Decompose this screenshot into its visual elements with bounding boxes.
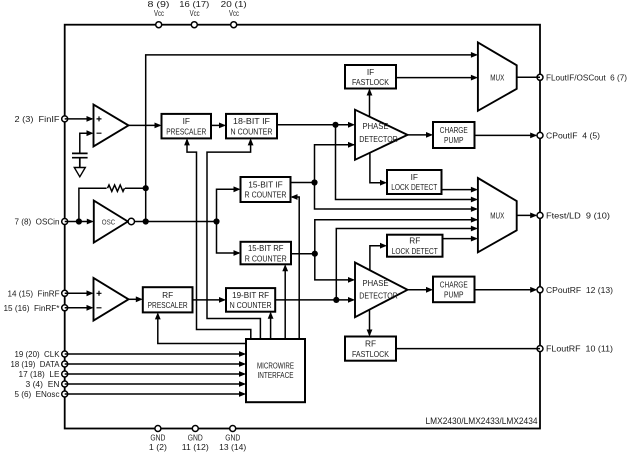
junction RF fp branch — [333, 297, 339, 303]
wire feedback right segment — [125, 187, 146, 189]
wire IF lock detect to MUX — [442, 189, 477, 191]
pin OSCin — [62, 219, 68, 225]
svg-text:7 (8) OSCin: 7 (8) OSCin — [15, 217, 60, 227]
pin Vcc 8 (9) — [156, 22, 162, 28]
svg-text:FLoutRF 10 (11): FLoutRF 10 (11) — [546, 344, 613, 354]
wire OSC to IF R counter input — [217, 189, 240, 221]
wire IF fr to phase detector arrow — [348, 142, 355, 148]
capacitor on IF amp - input — [72, 153, 88, 167]
wire IF phase detector to charge pump — [408, 134, 432, 136]
svg-text:PHASE: PHASE — [363, 278, 389, 288]
OSC buffer — [94, 201, 128, 243]
svg-text:MUX: MUX — [490, 210, 504, 220]
pin CPoutRF — [537, 287, 543, 293]
svg-text:CPoutIF 4 (5): CPoutIF 4 (5) — [546, 130, 600, 140]
resistor OSC feedback — [108, 185, 125, 191]
wire OSCin to OSC buffer — [65, 221, 93, 223]
wire IF phase detector to lock detect — [370, 153, 386, 183]
svg-text:LOCK DETECT: LOCK DETECT — [391, 182, 437, 192]
junction OSC output to routing line — [143, 218, 149, 224]
svg-text:15-BIT IF: 15-BIT IF — [248, 180, 283, 190]
svg-text:FLoutIF/OSCout 6 (7): FLoutIF/OSCout 6 (7) — [546, 72, 627, 82]
wire FinRF* to amp - input — [65, 307, 92, 309]
svg-text:13 (14): 13 (14) — [219, 442, 246, 452]
block 19-BIT RF N COUNTER — [226, 288, 275, 312]
block IF PRESCALER — [162, 114, 212, 138]
svg-text:Vcc: Vcc — [154, 9, 164, 18]
svg-text:MUX: MUX — [490, 72, 504, 82]
junction OSC output to R counters — [213, 218, 219, 224]
wire OSC to RF R counter input — [217, 222, 240, 254]
pin FLoutIF/OSCout — [537, 74, 543, 80]
RF input buffer amplifier — [94, 278, 129, 321]
wire IF N counter to IF phase detector — [277, 124, 354, 126]
svg-text:PUMP: PUMP — [444, 135, 464, 145]
junction feedback to OSC routing — [143, 185, 149, 191]
wire RF N counter to RF phase detector — [275, 299, 353, 301]
block 15-BIT IF R COUNTER — [241, 177, 291, 202]
svg-text:CHARGE: CHARGE — [440, 125, 468, 135]
wire RF fr to MUX arrow — [471, 217, 478, 223]
block RF CHARGE PUMP — [433, 277, 475, 303]
wire FinIF to amp + input — [65, 118, 92, 120]
pin FLoutRF — [537, 346, 543, 352]
wire RF phase detector to RF fastlock — [369, 310, 371, 335]
pin GND 1 (2) — [155, 426, 161, 432]
block 18-BIT IF N COUNTER — [226, 114, 277, 138]
wire IF prescaler to IF N counter — [211, 124, 225, 126]
block MICROWIRE INTERFACE — [246, 339, 305, 402]
svg-text:11 (12): 11 (12) — [182, 442, 209, 452]
wire OSC output — [135, 221, 217, 223]
wire amp - input — [80, 133, 92, 153]
svg-text:1 (2): 1 (2) — [149, 442, 167, 452]
wire CPoutRF — [475, 289, 536, 291]
wire RF lock detect to MUX — [443, 238, 477, 240]
svg-text:3 (4) EN: 3 (4) EN — [26, 379, 60, 389]
svg-text:18 (19) DATA: 18 (19) DATA — [11, 359, 60, 369]
pin FinRF — [62, 290, 68, 296]
block 15-BIT RF R COUNTER — [241, 242, 292, 264]
pin GND 13 (14) — [230, 426, 236, 432]
wire IF amp output to IF prescaler — [129, 124, 161, 126]
svg-text:15-BIT RF: 15-BIT RF — [248, 243, 284, 253]
svg-text:CPoutRF 12 (13): CPoutRF 12 (13) — [546, 285, 613, 295]
svg-text:20 (1): 20 (1) — [221, 0, 247, 9]
svg-text:15 (16) FinRF*: 15 (16) FinRF* — [4, 303, 61, 313]
svg-text:RF: RF — [409, 236, 420, 246]
wire top MUX output FLoutIF/OSCout — [517, 76, 540, 78]
svg-text:LOCK DETECT: LOCK DETECT — [392, 246, 438, 256]
pin CLK — [62, 351, 68, 357]
mux U2 Ftest/LD MUX — [478, 178, 517, 252]
svg-text:19 (20) CLK: 19 (20) CLK — [15, 349, 60, 359]
svg-text:RF: RF — [162, 290, 173, 300]
wire OSC to top MUX input — [146, 55, 477, 222]
wire RF fp to MUX — [336, 229, 476, 300]
svg-text:MICROWIRE: MICROWIRE — [257, 361, 294, 371]
wire microwire to RF R counter — [284, 266, 286, 339]
svg-text:IF: IF — [411, 172, 418, 182]
wire microwire to IF prescaler — [187, 140, 251, 339]
mux U1 top MUX — [478, 42, 517, 110]
svg-text:INTERFACE: INTERFACE — [258, 370, 294, 380]
svg-text:N COUNTER: N COUNTER — [230, 300, 272, 310]
junction OSCin feedback — [76, 218, 82, 224]
chip boundary — [65, 25, 540, 429]
svg-text:R COUNTER: R COUNTER — [245, 253, 287, 263]
pin LE — [62, 371, 68, 377]
svg-text:OSC: OSC — [102, 217, 116, 226]
svg-text:18-BIT IF: 18-BIT IF — [233, 116, 270, 126]
svg-text:LMX2430/LMX2433/LMX2434: LMX2430/LMX2433/LMX2434 — [426, 416, 538, 427]
svg-text:Vcc: Vcc — [229, 9, 239, 18]
ground symbol — [74, 168, 85, 177]
wire IF R counter output — [291, 182, 315, 184]
wire CPoutIF — [475, 134, 536, 136]
svg-text:IF: IF — [367, 67, 374, 77]
wire IF fastlock to top MUX — [396, 77, 476, 79]
wire mid MUX output Ftest/LD — [517, 214, 536, 216]
svg-text:R COUNTER: R COUNTER — [245, 190, 287, 200]
junction IF fr branch — [311, 179, 317, 185]
wire IF fr vertical — [315, 145, 477, 209]
svg-text:PHASE: PHASE — [363, 121, 389, 131]
pin Vcc 20 (1) — [231, 22, 237, 28]
op-amp RF PHASE DETECTOR — [355, 263, 408, 318]
svg-text:DETECTOR: DETECTOR — [359, 134, 398, 144]
pin FinRF* — [62, 305, 68, 311]
svg-text:14 (15) FinRF: 14 (15) FinRF — [8, 288, 60, 298]
wire RF fr vertical — [315, 220, 478, 280]
block IF CHARGE PUMP — [433, 122, 475, 148]
svg-text:PUMP: PUMP — [444, 290, 464, 300]
wire DATA to microwire interface — [65, 363, 245, 365]
wire microwire to RF prescaler — [158, 314, 246, 344]
wire LE to microwire interface — [65, 373, 245, 375]
svg-text:PRESCALER: PRESCALER — [148, 300, 188, 310]
wire microwire to RF N counter — [270, 313, 272, 339]
svg-text:Ftest/LD 9 (10): Ftest/LD 9 (10) — [546, 210, 610, 220]
svg-text:RF: RF — [365, 339, 376, 349]
wire FinRF to amp + input — [65, 292, 92, 294]
svg-text:17 (18) LE: 17 (18) LE — [19, 369, 60, 379]
block RF LOCK DETECT — [387, 235, 443, 257]
svg-text:FASTLOCK: FASTLOCK — [352, 77, 389, 87]
svg-text:Vcc: Vcc — [190, 9, 200, 18]
wire RF phase detector to lock detect — [370, 246, 386, 271]
pin Ftest/LD — [537, 212, 543, 218]
pin ENosc — [62, 391, 68, 397]
wire RF phase detector to charge pump — [408, 289, 432, 291]
block IF FASTLOCK — [345, 65, 396, 89]
wire ENosc to microwire interface — [65, 393, 245, 395]
block IF LOCK DETECT — [387, 170, 442, 194]
junction IF fp branch — [332, 122, 338, 128]
wire IF phase detector to IF fastlock — [369, 90, 371, 117]
wire EN to microwire interface — [65, 383, 245, 385]
svg-text:N COUNTER: N COUNTER — [231, 126, 273, 136]
svg-text:16 (17): 16 (17) — [179, 0, 209, 9]
IF input buffer amplifier — [94, 105, 129, 147]
wire IF fp to MUX — [336, 125, 477, 200]
block RF PRESCALER — [143, 287, 193, 312]
block RF FASTLOCK — [345, 337, 396, 361]
svg-text:5 (6) ENosc: 5 (6) ENosc — [15, 389, 61, 399]
svg-text:19-BIT RF: 19-BIT RF — [232, 290, 269, 300]
svg-text:FASTLOCK: FASTLOCK — [352, 349, 389, 359]
svg-text:8 (9): 8 (9) — [148, 0, 170, 9]
pin DATA — [62, 361, 68, 367]
pin GND 11 (12) — [192, 426, 198, 432]
pin Vcc 16 (17) — [191, 22, 197, 28]
wire microwire to IF N counter — [207, 140, 260, 339]
svg-text:PRESCALER: PRESCALER — [166, 126, 206, 136]
wire microwire to IF R counter — [292, 197, 299, 339]
wire RF amp output to RF prescaler — [129, 298, 142, 300]
wire FLoutRF — [396, 348, 540, 350]
wire CLK to microwire interface — [65, 353, 245, 355]
pin EN — [62, 381, 68, 387]
pin CPoutIF — [537, 132, 543, 138]
op-amp IF PHASE DETECTOR — [355, 110, 408, 160]
wire RF prescaler to RF N counter — [193, 299, 225, 301]
pin FinIF — [62, 116, 68, 122]
svg-text:CHARGE: CHARGE — [440, 279, 468, 289]
svg-text:2 (3) FinIF: 2 (3) FinIF — [15, 114, 60, 124]
wire feedback left segment — [79, 188, 107, 221]
svg-text:DETECTOR: DETECTOR — [359, 291, 398, 301]
svg-text:IF: IF — [183, 116, 190, 126]
wire RF R counter output — [291, 253, 315, 255]
junction RF fr branch — [312, 251, 318, 257]
